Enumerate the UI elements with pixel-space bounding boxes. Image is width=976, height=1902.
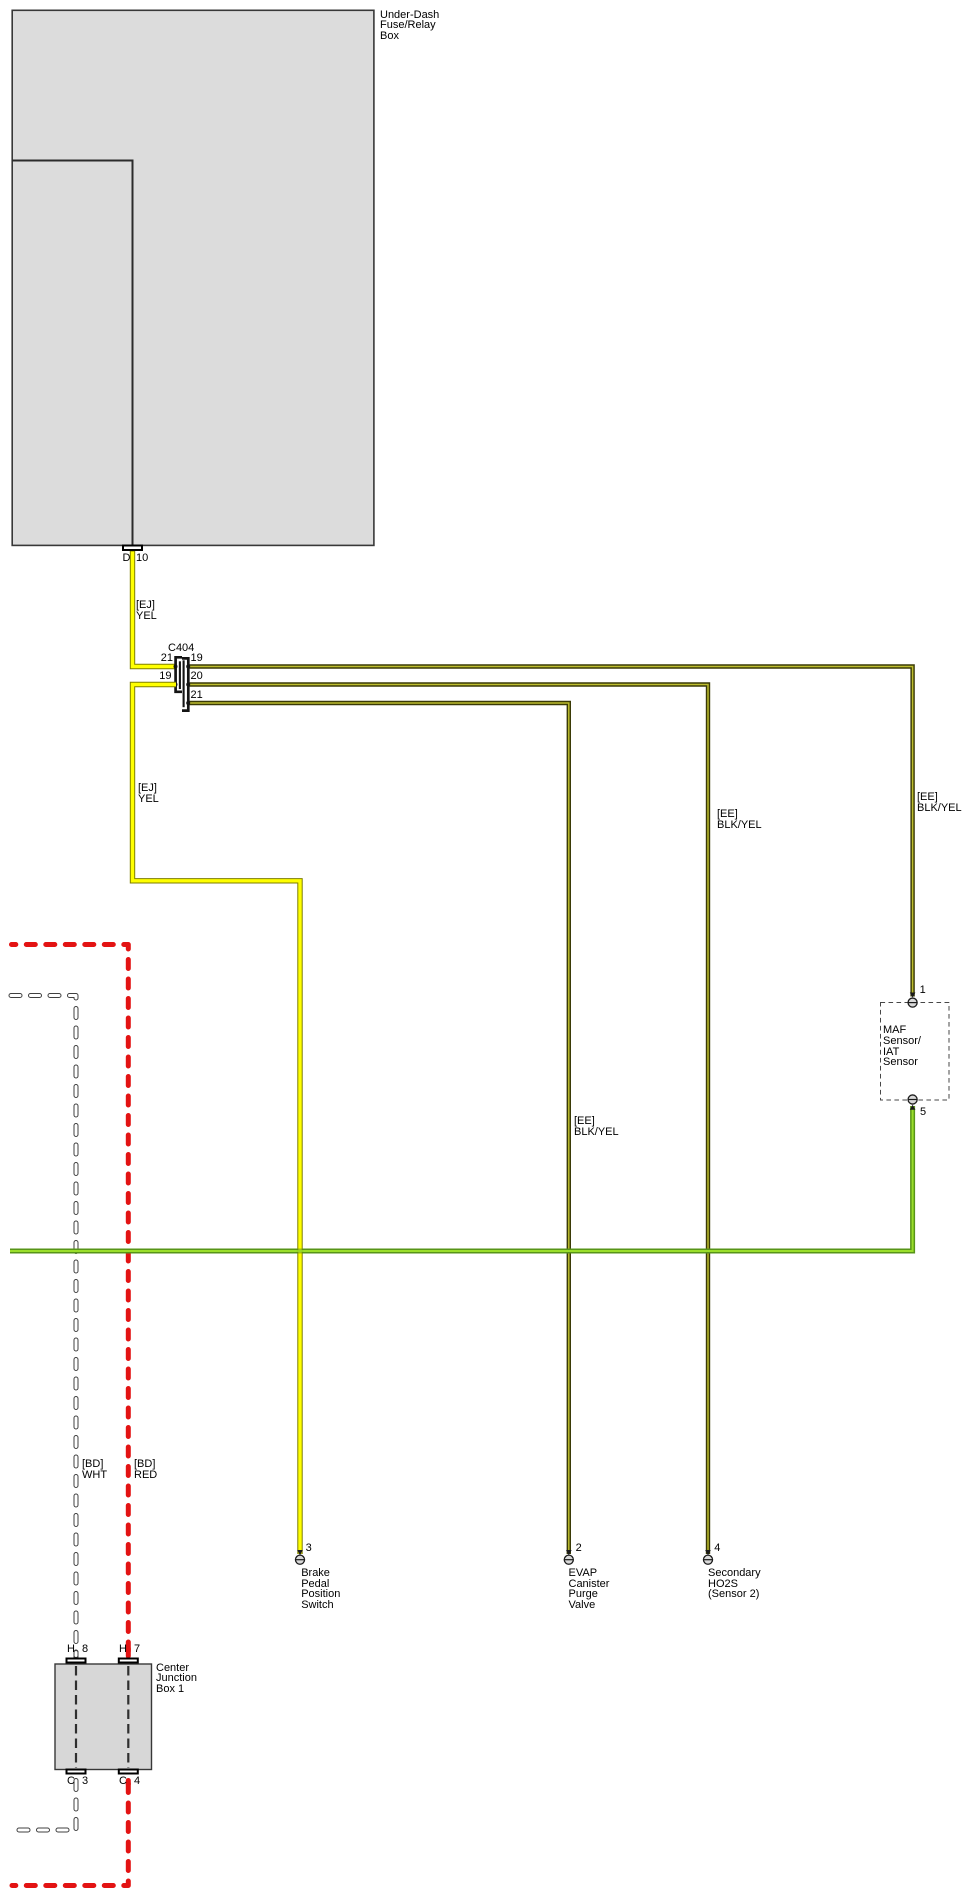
connector D10 on fuse box [123, 546, 142, 551]
label 8 (connector H8) [82, 1644, 88, 1655]
under-dash fuse/relay box [12, 10, 374, 545]
wire [BD] WHT from center junction box C3 to bottom left [11, 1778, 76, 1830]
green blend over yellow crossing [297, 1249, 304, 1254]
terminal MAF pin 1 [908, 998, 917, 1007]
wire [EE] BLK/YEL from C404 pin 19 to MAF sensor pin 1 [187, 667, 913, 997]
label pin 4 secondary HO2S [714, 1543, 720, 1554]
label Secondary HO2S (Sensor 2) [708, 1568, 761, 1600]
label pin 2 EVAP [576, 1543, 582, 1554]
wire [BD] RED stub above H7 [126, 1649, 131, 1657]
wire [BD] RED from upper left to center junction box H7 [12, 945, 129, 1658]
label MAF Sensor/IAT Sensor [883, 1025, 921, 1068]
MAF sensor / IAT sensor box (dashed) [881, 1003, 950, 1101]
wire [BD] WHT stub above H8 [74, 1653, 79, 1656]
connector C3 [67, 1770, 86, 1774]
connector C404 left blade [179, 661, 181, 689]
label H (connector H8) [67, 1644, 75, 1655]
wire inside fuse box (dark) [12, 161, 133, 546]
label Brake Pedal Position Switch [301, 1568, 340, 1611]
label pin 3 brake pedal position switch [306, 1543, 312, 1554]
label 7 (connector H7) [134, 1644, 140, 1655]
arrowhead into MAF pin 5 [910, 1105, 916, 1110]
label [EJ] YEL upper [136, 600, 157, 622]
junction dot C404 pin 20 right [186, 683, 190, 687]
wire through junction box H7-C4 (dashed) [127, 1666, 129, 1768]
label [BD] RED [134, 1459, 157, 1481]
junction dot C404 pin 19 right [186, 665, 190, 669]
label [EE] BLK/YEL lower [574, 1116, 619, 1138]
label 3 (connector C3) [82, 1776, 88, 1787]
label EVAP Canister Purge Valve [569, 1568, 610, 1611]
junction dot C404 pin 21 right [186, 701, 190, 705]
label pin 21 right of C404 [191, 690, 203, 701]
label D (connector D10) [123, 553, 131, 564]
label 10 (connector D10) [136, 553, 148, 564]
connector C404 right blade [183, 660, 185, 707]
arrowhead into EVAP canister purge valve [566, 1550, 572, 1555]
connector C4 [119, 1770, 138, 1774]
label [EE] BLK/YEL middle [717, 809, 762, 831]
wire [EE] BLK/YEL from C404 pin 20 to secondary HO2S [187, 685, 708, 1555]
arrowhead into secondary HO2S [705, 1550, 711, 1555]
terminal EVAP canister purge valve pin 2 [564, 1555, 573, 1564]
wire [BD] RED stub below C4 [126, 1781, 131, 1785]
wire [EJ] YEL from C404 pin 19 to brake pedal position switch [133, 685, 301, 1555]
arrowhead into brake pedal position switch [297, 1550, 303, 1555]
connector C404 right half [182, 658, 188, 710]
junction dot C404 pin 19 left [174, 683, 178, 687]
wire [BD] WHT from upper left to center junction box H8 [11, 996, 76, 1658]
wire [BD] RED from center junction box C4 to bottom left [12, 1778, 128, 1886]
label [BD] WHT [82, 1459, 107, 1481]
arrowhead into MAF pin 1 [910, 993, 916, 998]
label C (connector C4) [119, 1776, 127, 1787]
wire through junction box H8-C3 (dashed) [75, 1666, 77, 1768]
connector C404 left half [176, 657, 182, 692]
label C404 [168, 643, 194, 654]
terminal secondary HO2S pin 4 [703, 1555, 712, 1564]
wire GRN from left to MAF sensor pin 5 [10, 1106, 913, 1251]
label pin 5 MAF [920, 1107, 926, 1118]
terminal MAF pin 5 [908, 1095, 917, 1104]
label C (connector C3) [67, 1776, 75, 1787]
label H (connector H7) [119, 1644, 127, 1655]
label [EE] BLK/YEL right [917, 792, 962, 814]
label Center Junction Box 1 [156, 1663, 197, 1695]
label pin 20 right of C404 [191, 671, 203, 682]
wire [EJ] YEL from D10 to C404 pin 21 [133, 551, 177, 667]
label pin 1 MAF [920, 985, 926, 996]
wire [EE] BLK/YEL from C404 pin 21 to EVAP canister purge valve [187, 703, 569, 1554]
connector H7 [119, 1659, 138, 1663]
center junction box 1 [55, 1664, 152, 1770]
label pin 19 right of C404 [191, 653, 203, 664]
label [EJ] YEL lower [138, 783, 159, 805]
label pin 21 left of C404 [153, 653, 173, 664]
label Under-Dash Fuse/Relay Box [380, 10, 439, 42]
label 4 (connector C4) [134, 1776, 140, 1787]
terminal brake pedal position switch pin 3 [295, 1555, 304, 1564]
label pin 19 left of C404 [152, 671, 172, 682]
junction dot C404 pin 21 left [174, 665, 178, 669]
connector H8 [67, 1659, 86, 1663]
